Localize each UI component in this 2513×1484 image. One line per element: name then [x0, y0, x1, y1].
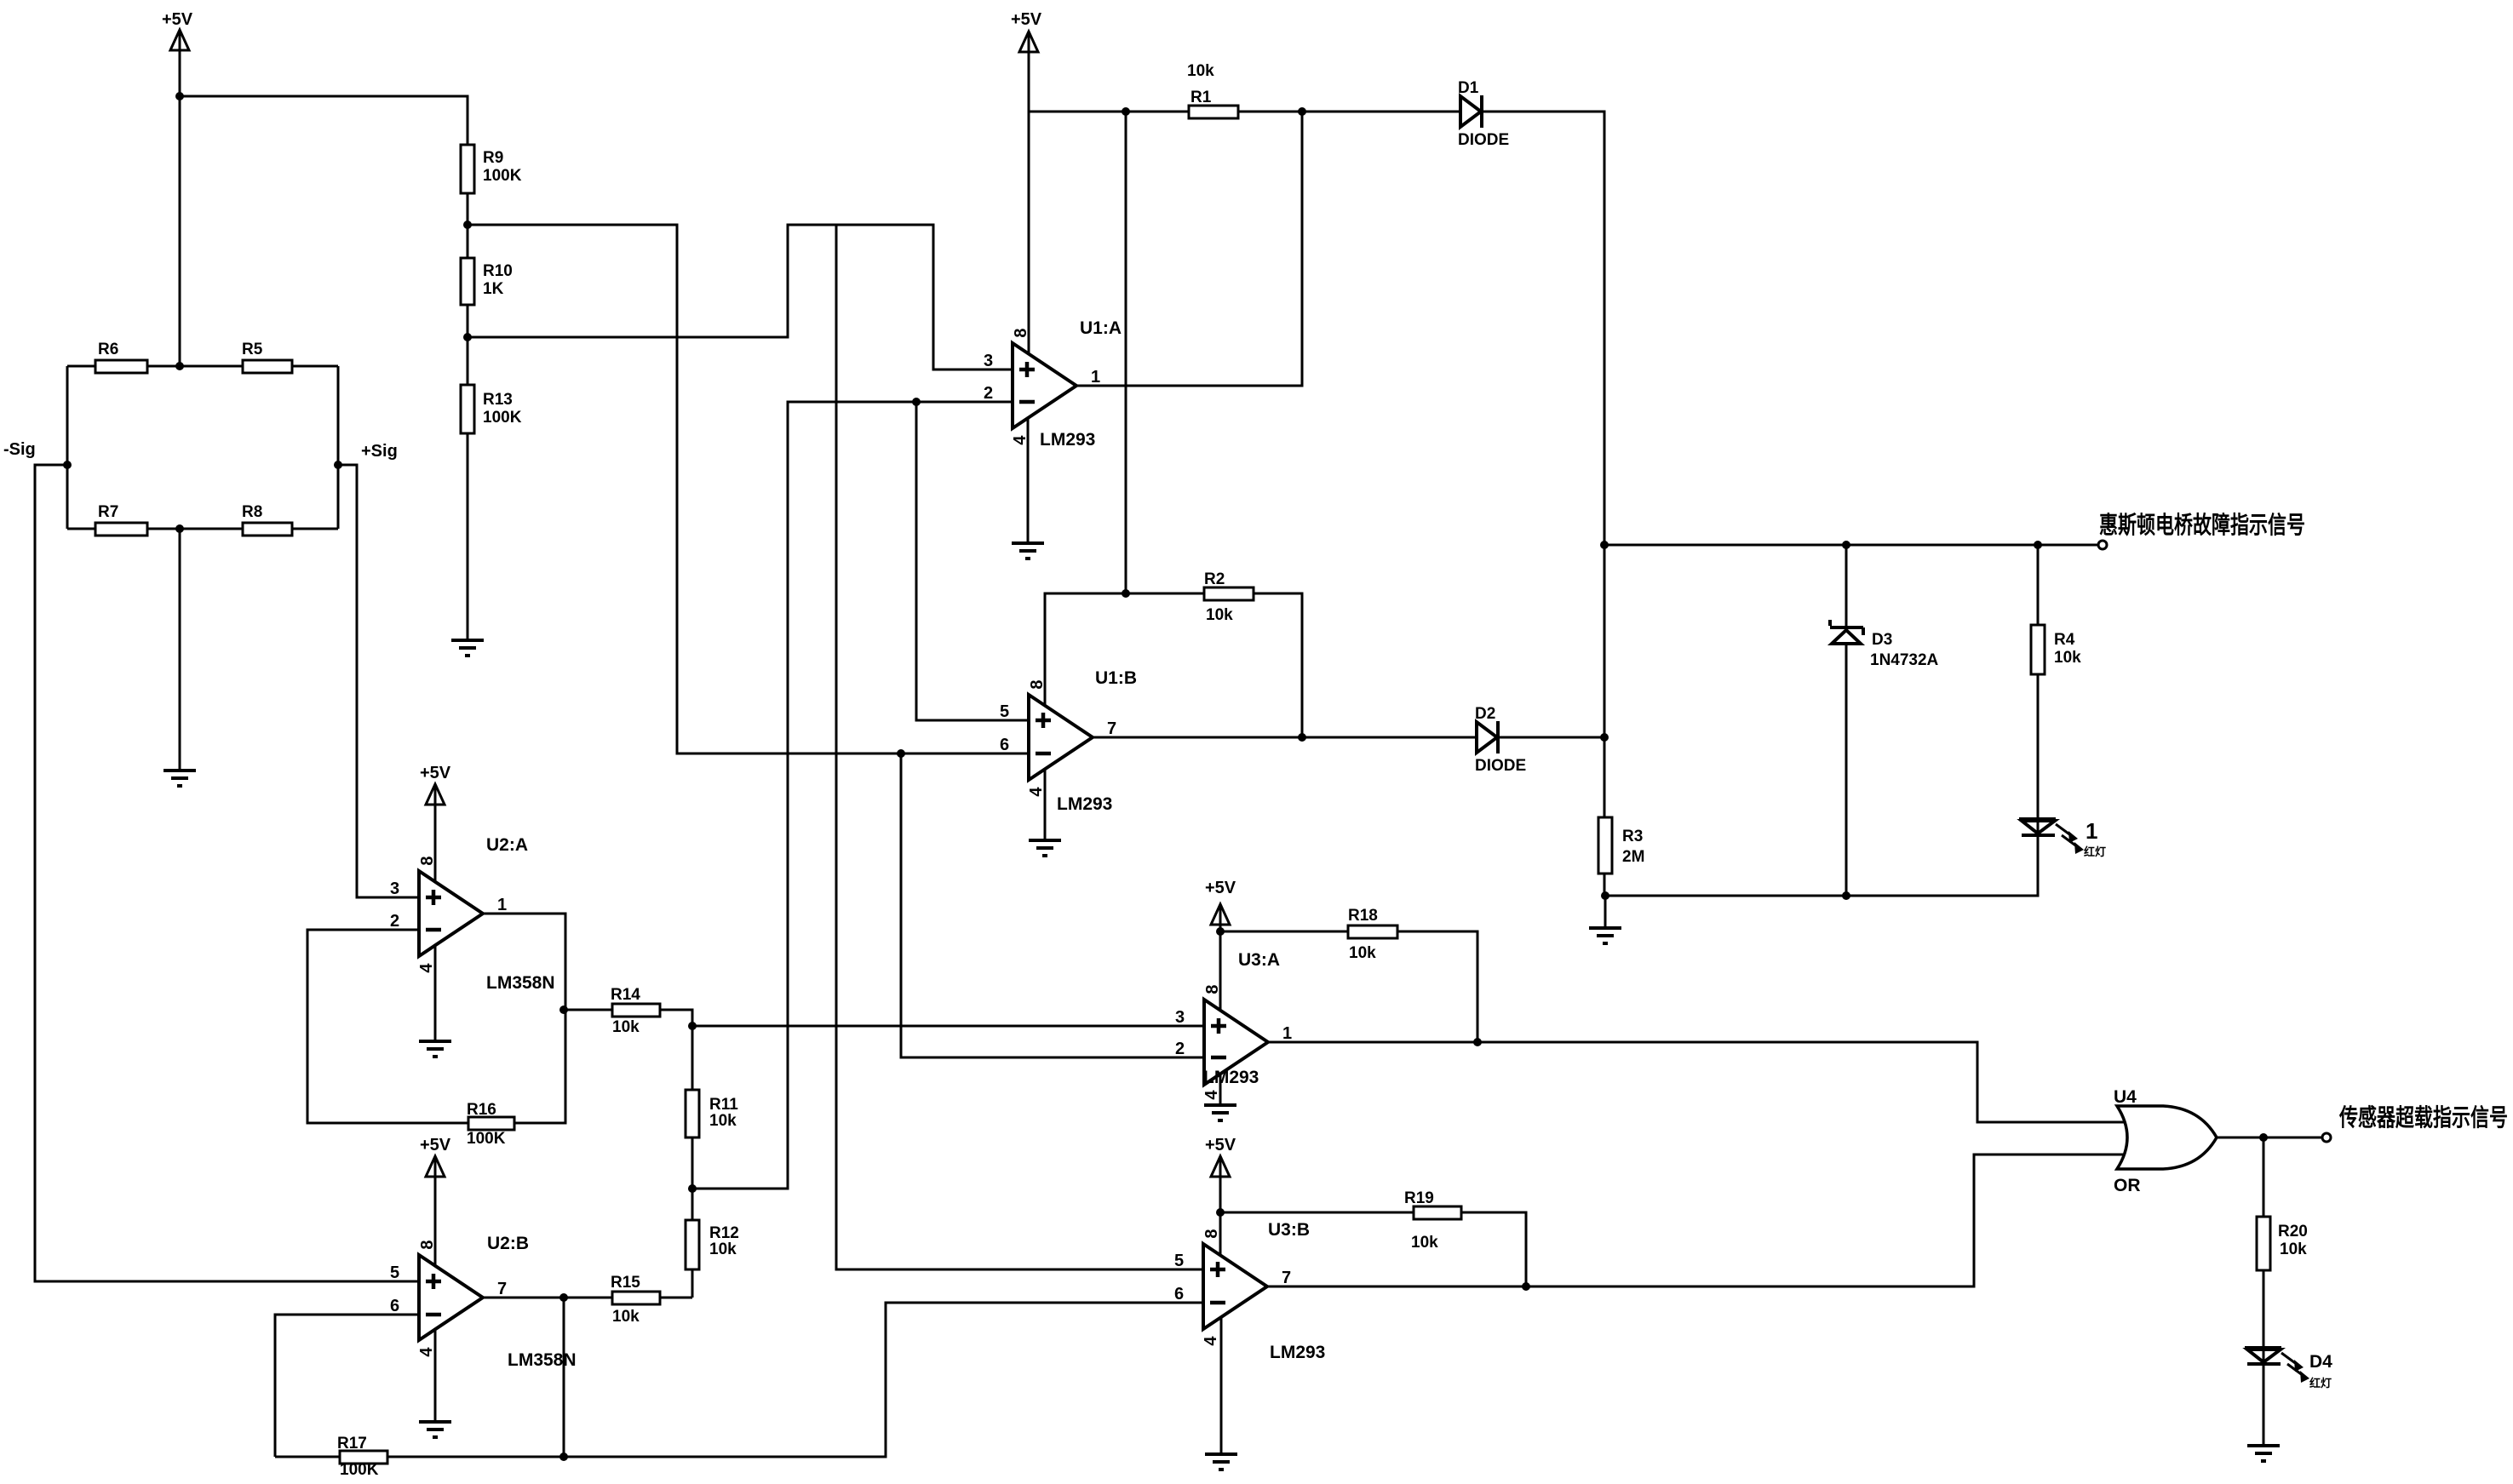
wire: U1:A pin4 to ground: [1027, 415, 1030, 543]
wire: U3:B pin4 to ground: [1220, 1315, 1223, 1454]
ground (below bridge): [164, 771, 196, 786]
svg-text:R17: R17: [337, 1435, 367, 1452]
svg-text:100K: 100K: [483, 167, 522, 185]
svg-text:U1:A: U1:A: [1080, 318, 1122, 338]
resistor R7: [95, 503, 147, 536]
power flag +5V (U2:A): [420, 764, 451, 805]
svg-text:3: 3: [984, 352, 993, 370]
svg-text:U2:A: U2:A: [486, 835, 528, 855]
junction: OR output to R20: [2259, 1133, 2268, 1142]
wire: OR gate output to open terminal: [2217, 1137, 2322, 1139]
wire: fault bottom rail ground stem: [1604, 896, 1607, 928]
svg-text:7: 7: [497, 1280, 507, 1298]
wire: U3:B +5V / pin8 stem: [1219, 1175, 1222, 1258]
wire: U3:A output to OR gate input A: [1268, 1042, 2133, 1122]
svg-text:传感器超载指示信号: 传感器超载指示信号: [2338, 1104, 2508, 1131]
wire: U2:A output pin1 to R14 node: [483, 914, 565, 1010]
wire: U3:A +5V / pin8 stem: [1219, 923, 1222, 1013]
wire: U2:A pin8 supply stem: [434, 803, 437, 885]
svg-text:红灯: 红灯: [2309, 1377, 2332, 1389]
resistor R10 1K: [461, 258, 513, 305]
wire: U1:A +5V / pin8 stem: [1028, 50, 1030, 358]
wire: U2:A pin4 to ground: [434, 943, 437, 1041]
svg-text:D4: D4: [2309, 1352, 2332, 1372]
junction: R10/R13 tap: [463, 333, 472, 341]
svg-text:R5: R5: [242, 341, 263, 358]
wire: reference tap to U3:B pin5: [836, 225, 1203, 1269]
svg-text:U3:A: U3:A: [1238, 950, 1280, 970]
svg-text:10k: 10k: [2280, 1240, 2307, 1258]
wire: R9/R10 tap to U1:B pin6: [468, 225, 1029, 753]
op-amp U3:A LM293: [1175, 950, 1292, 1100]
svg-text:LM358N: LM358N: [486, 973, 555, 993]
op-amp U2:B LM358N: [390, 1234, 577, 1370]
junction: R11/R12 midpoint: [688, 1184, 697, 1193]
svg-text:5: 5: [1174, 1252, 1184, 1270]
LED D4 (red lamp, overload): [2245, 1348, 2332, 1389]
open terminal: overload signal: [2322, 1133, 2331, 1142]
svg-text:D1: D1: [1458, 79, 1479, 97]
wire: R10 to R13 segment: [467, 305, 469, 385]
svg-text:4: 4: [1202, 1336, 1220, 1346]
svg-text:8: 8: [1028, 679, 1047, 689]
junction: bottom rail at D3: [1842, 891, 1850, 900]
op-amp U1:B LM293: [1000, 668, 1137, 814]
svg-text:2: 2: [390, 912, 399, 931]
svg-text:+5V: +5V: [1011, 10, 1042, 29]
junction: +5V branch node: [175, 92, 184, 100]
svg-text:6: 6: [390, 1297, 399, 1315]
wire: divider midpoint to U1:A pin2: [692, 402, 1013, 1189]
svg-text:+5V: +5V: [1205, 1136, 1236, 1155]
wire: U3:B output to OR gate input B: [1267, 1155, 2133, 1286]
junction: R2 to U1:B output: [1298, 733, 1306, 742]
wire: U2:B output pin7 through R15: [483, 1297, 692, 1299]
wire: R9 to R10 segment: [467, 193, 469, 258]
svg-text:2M: 2M: [1622, 848, 1644, 866]
wire: bridge right rail: [337, 366, 340, 529]
svg-text:1N4732A: 1N4732A: [1870, 651, 1939, 669]
svg-text:+5V: +5V: [162, 10, 193, 29]
svg-text:7: 7: [1282, 1269, 1291, 1287]
svg-text:U3:B: U3:B: [1268, 1220, 1310, 1240]
svg-text:1: 1: [1091, 368, 1100, 387]
junction: U2:B output node: [559, 1293, 568, 1302]
svg-text:+5V: +5V: [1205, 879, 1236, 897]
junction: fault node at D1 column: [1600, 541, 1609, 549]
svg-text:1: 1: [1282, 1024, 1292, 1043]
svg-text:6: 6: [1000, 736, 1009, 754]
svg-text:3: 3: [1175, 1008, 1185, 1027]
svg-text:DIODE: DIODE: [1458, 131, 1509, 149]
svg-text:100K: 100K: [340, 1461, 379, 1479]
ground (U2:B pin4): [419, 1422, 451, 1437]
wire: +5V branch to R9 top: [180, 96, 468, 145]
wire: R18 pull-up to U3:A output: [1220, 931, 1477, 1042]
wire: U1:A output pin1 up to R1 right node: [1076, 112, 1302, 386]
svg-text:2: 2: [1175, 1040, 1185, 1058]
resistor R9 100K: [461, 145, 522, 193]
junction: R18 to U3:A output: [1473, 1038, 1482, 1046]
junction: R2 supply node: [1122, 589, 1130, 598]
wire: bridge bottom center to ground: [179, 529, 181, 771]
wire: U2:B pin6 to R17 left: [275, 1315, 419, 1457]
svg-text:R10: R10: [483, 262, 513, 280]
svg-text:R9: R9: [483, 149, 503, 167]
wire: U1:B output pin7 through D2 to fault column: [1093, 736, 1604, 739]
power flag +5V (U3:A): [1205, 879, 1236, 925]
wire: U1:B pin4 to ground: [1044, 766, 1047, 840]
ground (U2:A pin4): [419, 1041, 451, 1057]
wire: R19 pull-up to U3:B output: [1220, 1212, 1526, 1286]
resistor R12 10k: [686, 1220, 739, 1269]
resistor R17 100K: [337, 1435, 387, 1479]
junction: R19 to U3:B output: [1522, 1282, 1530, 1291]
svg-text:惠斯顿电桥故障指示信号: 惠斯顿电桥故障指示信号: [2099, 511, 2305, 538]
svg-text:U2:B: U2:B: [487, 1234, 529, 1253]
svg-text:4: 4: [1027, 787, 1046, 797]
wire: bridge top rail: [67, 365, 338, 368]
op-amp U2:A LM358N: [390, 835, 555, 993]
power flag +5V (U2:B): [420, 1136, 451, 1177]
ground (fault indicator rail): [1589, 928, 1621, 943]
wire: +5V rail down into bridge top: [179, 50, 181, 366]
svg-text:10k: 10k: [2054, 649, 2081, 667]
svg-text:R7: R7: [98, 503, 118, 521]
junction: fault node at D3: [1842, 541, 1850, 549]
svg-text:LM358N: LM358N: [508, 1350, 577, 1370]
svg-text:R3: R3: [1622, 828, 1643, 845]
wire: +Sig run to U2:A pin3: [338, 465, 419, 897]
svg-text:10k: 10k: [1206, 606, 1233, 624]
power flag +5V (U1:A): [1011, 10, 1042, 53]
wire: R10/R13 tap to U1:A pin3: [468, 225, 1013, 370]
svg-text:LM293: LM293: [1040, 430, 1095, 450]
svg-text:U4: U4: [2114, 1087, 2137, 1107]
wire: R14 line to U3:A pin3: [564, 1010, 1204, 1026]
junction: R14 output node: [688, 1022, 697, 1030]
junction: R1 right / D1 node: [1298, 107, 1306, 116]
junction: R19 supply node: [1216, 1208, 1225, 1217]
ground (U1:B pin4): [1029, 840, 1061, 856]
wire: U1:B pin8 jog and R2 down to output: [1045, 593, 1302, 737]
svg-text:1K: 1K: [483, 280, 504, 298]
junction: bridge bottom center: [175, 524, 184, 533]
resistor R8: [242, 503, 292, 536]
svg-text:R4: R4: [2054, 631, 2075, 649]
svg-text:4: 4: [417, 1347, 436, 1357]
power flag +5V (bridge, top-left): [162, 10, 193, 51]
wire: U2:B pin8 supply stem: [434, 1175, 437, 1269]
wire: R13 bottom to ground: [467, 433, 469, 640]
op-amp U1:A LM293: [984, 318, 1122, 450]
svg-text:R13: R13: [483, 391, 513, 409]
svg-text:R15: R15: [611, 1274, 640, 1292]
svg-text:R2: R2: [1204, 570, 1225, 588]
svg-text:8: 8: [418, 856, 437, 865]
svg-text:-Sig: -Sig: [3, 440, 36, 459]
svg-text:+5V: +5V: [420, 1136, 451, 1155]
svg-text:10k: 10k: [612, 1308, 640, 1326]
junction: D2 to fault column: [1600, 733, 1609, 742]
svg-text:D2: D2: [1475, 705, 1495, 723]
junction: R18 supply node: [1216, 927, 1225, 936]
svg-text:4: 4: [1202, 1090, 1221, 1100]
zener diode D3 1N4732A: [1830, 620, 1939, 669]
wire: D3 zener column: [1845, 545, 1848, 896]
svg-text:R6: R6: [98, 341, 118, 358]
wire: bridge bottom rail: [67, 528, 338, 530]
ground (U1:A pin4): [1012, 543, 1044, 559]
svg-text:R14: R14: [611, 986, 640, 1004]
resistor R11 10k: [686, 1090, 738, 1137]
resistor R3 2M: [1598, 817, 1644, 874]
LED 1 (red lamp, bridge fault): [2019, 818, 2106, 858]
wire: U1:B pin6 net down to U3:A pin2: [901, 753, 1204, 1057]
svg-text:8: 8: [1203, 984, 1222, 994]
svg-text:10k: 10k: [612, 1018, 640, 1036]
wire: U2:A pin2 feedback loop via R16: [307, 930, 565, 1123]
diode D2: [1475, 705, 1526, 775]
svg-text:6: 6: [1174, 1285, 1184, 1304]
junction: +5V on R1 rail: [1122, 107, 1130, 116]
resistor R4 10k: [2031, 625, 2081, 674]
svg-text:4: 4: [1011, 435, 1030, 445]
ground (U3:B pin4): [1205, 1454, 1237, 1470]
svg-text:5: 5: [1000, 702, 1009, 721]
junction: fault node at R4: [2034, 541, 2042, 549]
svg-text:4: 4: [417, 963, 436, 973]
svg-text:R19: R19: [1404, 1189, 1434, 1207]
junction: R9/R10 tap: [463, 221, 472, 229]
resistor R1 10k: [1187, 62, 1238, 118]
wire: R1 pull-up rail with D1 to fault node column: [1029, 112, 1604, 896]
svg-text:10k: 10k: [709, 1240, 737, 1258]
svg-text:10k: 10k: [1349, 944, 1376, 962]
junction: R17 feedback node: [559, 1452, 568, 1461]
svg-text:1: 1: [497, 896, 507, 914]
svg-text:U1:B: U1:B: [1095, 668, 1137, 688]
svg-text:10k: 10k: [1411, 1234, 1438, 1252]
wire: fault node rail to open terminal: [1604, 544, 2098, 547]
svg-text:8: 8: [1012, 328, 1030, 337]
svg-text:LM293: LM293: [1057, 794, 1112, 814]
resistor R15 10k: [611, 1274, 660, 1326]
svg-text:100K: 100K: [483, 409, 522, 427]
junction: bottom rail at R3: [1601, 891, 1609, 900]
wire: same node down to U1:B pin5: [916, 402, 1029, 720]
svg-text:R16: R16: [467, 1101, 496, 1119]
svg-text:R1: R1: [1191, 89, 1212, 106]
svg-text:8: 8: [418, 1240, 437, 1249]
svg-text:LM293: LM293: [1270, 1343, 1325, 1362]
svg-text:10k: 10k: [709, 1112, 737, 1130]
wire: -Sig run to U2:B pin5: [35, 465, 419, 1281]
svg-text:5: 5: [390, 1263, 399, 1282]
svg-text:2: 2: [984, 384, 993, 403]
resistor R5: [242, 341, 292, 373]
junction: bridge top center: [175, 362, 184, 370]
wire: U2:B pin4 to ground: [434, 1326, 437, 1422]
wire: R20 / D4 column to ground: [2263, 1137, 2265, 1446]
svg-text:100K: 100K: [467, 1130, 506, 1148]
power flag +5V (U3:B): [1205, 1136, 1236, 1177]
svg-text:10k: 10k: [1187, 62, 1214, 80]
junction: U1:B pin6 tap: [897, 749, 905, 758]
svg-text:R12: R12: [709, 1224, 739, 1242]
resistor R18 10k: [1348, 907, 1397, 962]
svg-text:OR: OR: [2114, 1176, 2141, 1195]
svg-text:R20: R20: [2278, 1223, 2308, 1240]
ground (below D4): [2247, 1446, 2280, 1461]
open terminal: bridge fault signal: [2098, 541, 2107, 549]
ground (below R13): [451, 640, 484, 656]
junction: U1:A pin2 tap: [912, 398, 921, 406]
svg-text:7: 7: [1107, 719, 1116, 738]
op-amp U3:B LM293: [1174, 1220, 1325, 1362]
resistor R6: [95, 341, 147, 373]
svg-text:红灯: 红灯: [2084, 845, 2106, 858]
svg-text:D3: D3: [1872, 631, 1892, 649]
svg-text:R8: R8: [242, 503, 262, 521]
diode D1: [1458, 79, 1509, 149]
svg-text:3: 3: [390, 880, 399, 898]
svg-text:R11: R11: [709, 1096, 738, 1114]
resistor R20 10k: [2257, 1217, 2308, 1270]
svg-text:+Sig: +Sig: [361, 442, 398, 461]
resistor R13 100K: [461, 385, 522, 433]
ground (U3:A pin4): [1204, 1105, 1236, 1120]
junction: U2:A output node: [559, 1006, 568, 1014]
wire: +5V drop to R2 / U1:B pin8 node: [1125, 112, 1127, 593]
wire: bridge left rail: [66, 366, 69, 529]
junction: +Sig node: [334, 461, 342, 469]
wire: U3:A pin4 to ground: [1219, 1071, 1222, 1105]
svg-text:DIODE: DIODE: [1475, 757, 1526, 775]
svg-text:R18: R18: [1348, 907, 1378, 925]
svg-text:8: 8: [1202, 1229, 1221, 1238]
svg-text:+5V: +5V: [420, 764, 451, 782]
wire: U2:B output feedback drop: [563, 1298, 565, 1457]
OR gate U4: [2114, 1087, 2217, 1195]
resistor R19 10k: [1404, 1189, 1461, 1252]
resistor R2 10k: [1204, 570, 1254, 624]
wire: R11/R12 divider column: [691, 1026, 694, 1298]
wire: R17 line across to U3:B pin6: [275, 1303, 1203, 1457]
junction: -Sig node: [63, 461, 72, 469]
resistor R14 10k: [611, 986, 660, 1036]
wire: R4 / LED column and bottom rail: [1604, 545, 2038, 896]
resistor R16 100K: [467, 1101, 514, 1148]
svg-text:1: 1: [2086, 818, 2097, 844]
svg-text:LM293: LM293: [1203, 1068, 1259, 1087]
